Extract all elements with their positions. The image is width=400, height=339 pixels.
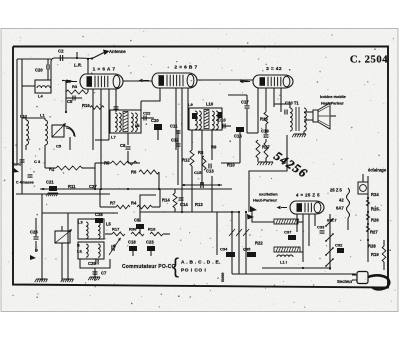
svg-text:R2: R2 (49, 167, 55, 172)
svg-text:C2: C2 (58, 49, 64, 54)
svg-text:C30 T1: C30 T1 (285, 101, 299, 106)
svg-text:C5: C5 (67, 99, 73, 104)
svg-text:Terre: Terre (12, 163, 21, 167)
svg-text:C22: C22 (143, 111, 151, 116)
svg-text:4 = 25 Z 5: 4 = 25 Z 5 (296, 193, 320, 198)
svg-text:Secteur: Secteur (337, 279, 353, 284)
svg-text:1 = 6 A 7: 1 = 6 A 7 (93, 67, 116, 73)
svg-text:R18: R18 (148, 227, 156, 232)
svg-text:C20: C20 (35, 68, 43, 73)
svg-text:C14: C14 (180, 202, 188, 207)
svg-text:C8: C8 (134, 218, 140, 223)
svg-text:L3: L3 (78, 220, 83, 225)
svg-text:R4: R4 (131, 201, 137, 206)
svg-text:R22: R22 (255, 241, 263, 246)
svg-text:R28: R28 (368, 244, 376, 249)
svg-text:C23: C23 (146, 240, 154, 245)
svg-text:Haut-Parleur: Haut-Parleur (321, 102, 344, 106)
svg-text:A . B . C . D . E.: A . B . C . D . E. (181, 260, 221, 266)
svg-text:C33: C33 (317, 225, 325, 230)
svg-text:C16: C16 (234, 134, 242, 139)
svg-text:D: D (35, 248, 38, 253)
svg-text:R26: R26 (371, 218, 379, 223)
svg-text:R19: R19 (371, 252, 379, 257)
svg-text:{: { (172, 255, 179, 278)
svg-text:L1 I: L1 I (280, 260, 287, 265)
svg-text:C26: C26 (30, 230, 38, 235)
svg-text:L7: L7 (111, 135, 116, 140)
svg-text:C25: C25 (88, 261, 96, 266)
svg-text:C32: C32 (335, 243, 343, 248)
svg-text:C 3: C 3 (34, 159, 41, 164)
svg-text:3 = 42: 3 = 42 (266, 66, 282, 72)
svg-text:C21: C21 (46, 180, 54, 185)
svg-text:Haut-Parleur: Haut-Parleur (253, 198, 277, 203)
svg-text:L8: L8 (135, 124, 139, 128)
svg-text:C34: C34 (220, 247, 228, 252)
svg-text:R13: R13 (195, 202, 203, 207)
svg-text:éclairage: éclairage (368, 168, 387, 173)
svg-text:C35: C35 (243, 247, 251, 252)
svg-text:C10: C10 (218, 118, 226, 123)
svg-text:C17: C17 (241, 100, 249, 105)
svg-text:C. 2504: C. 2504 (350, 55, 388, 66)
svg-text:bobine mobile: bobine mobile (320, 95, 346, 99)
svg-text:L.R.: L.R. (74, 63, 82, 68)
svg-text:R27: R27 (262, 145, 270, 150)
svg-text:R3: R3 (72, 84, 78, 89)
svg-text:R14: R14 (162, 198, 170, 203)
svg-text:C19: C19 (261, 129, 269, 134)
svg-text:42: 42 (339, 198, 344, 203)
svg-text:6A7: 6A7 (336, 206, 344, 211)
svg-text:C7: C7 (101, 271, 107, 276)
svg-text:R17: R17 (112, 227, 120, 232)
svg-text:Antenne: Antenne (109, 49, 126, 54)
svg-text:C15: C15 (194, 170, 202, 175)
svg-text:R25: R25 (371, 207, 379, 212)
svg-text:C27: C27 (89, 184, 97, 189)
svg-text:L1: L1 (40, 113, 45, 118)
svg-text:R6: R6 (131, 170, 137, 175)
svg-text:R16: R16 (82, 103, 90, 108)
svg-text:C11: C11 (170, 124, 178, 129)
svg-text:25 Z 5: 25 Z 5 (330, 188, 343, 193)
svg-text:C13: C13 (206, 169, 214, 174)
svg-text:C9: C9 (120, 143, 126, 148)
svg-text:L4: L4 (38, 94, 43, 99)
svg-text:C18: C18 (128, 240, 136, 245)
svg-text:L9: L9 (188, 102, 193, 107)
svg-text:2 = 6 B 7: 2 = 6 B 7 (174, 65, 197, 71)
svg-text:R7: R7 (110, 201, 116, 206)
svg-text:C37: C37 (284, 230, 292, 235)
svg-text:R12: R12 (182, 158, 190, 163)
svg-text:L10: L10 (206, 102, 214, 107)
svg-text:6.B.7: 6.B.7 (327, 218, 337, 223)
svg-text:R9: R9 (211, 145, 217, 150)
svg-text:C20: C20 (151, 118, 159, 123)
svg-text:L5: L5 (106, 222, 112, 227)
svg-text:Commutateur PO-CO: Commutateur PO-CO (122, 264, 176, 270)
svg-text:C 4 masse: C 4 masse (16, 181, 34, 185)
svg-text:50669: 50669 (221, 272, 225, 282)
svg-text:C28: C28 (95, 212, 103, 217)
svg-text:C5: C5 (56, 144, 62, 149)
svg-text:R27: R27 (370, 230, 378, 235)
svg-text:R11: R11 (68, 184, 76, 189)
svg-text:R36: R36 (129, 227, 137, 232)
svg-text:R8: R8 (198, 150, 204, 155)
svg-text:PO I CO I: PO I CO I (181, 268, 206, 274)
svg-text:excitation: excitation (259, 192, 278, 197)
svg-text:R24: R24 (371, 192, 379, 197)
